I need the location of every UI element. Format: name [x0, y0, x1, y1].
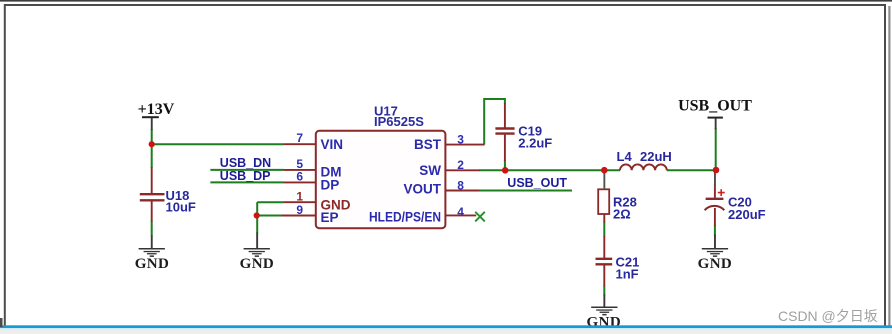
svg-text:3: 3	[457, 133, 464, 147]
svg-text:10uF: 10uF	[166, 200, 196, 215]
svg-text:6: 6	[296, 169, 303, 183]
svg-text:USB_OUT: USB_OUT	[507, 176, 567, 190]
svg-text:HLED/PS/EN: HLED/PS/EN	[369, 210, 441, 225]
svg-text:GND: GND	[240, 256, 275, 272]
svg-text:1: 1	[296, 189, 303, 203]
svg-text:IP6525S: IP6525S	[374, 114, 424, 129]
svg-text:+13V: +13V	[138, 101, 175, 118]
svg-text:EP: EP	[321, 210, 339, 225]
svg-text:USB_OUT: USB_OUT	[678, 97, 752, 114]
svg-text:2Ω: 2Ω	[613, 207, 631, 222]
svg-text:2.2uF: 2.2uF	[518, 136, 552, 151]
svg-text:9: 9	[296, 203, 303, 217]
svg-text:GND: GND	[135, 256, 170, 272]
svg-text:GND: GND	[698, 256, 733, 272]
svg-text:L4: L4	[617, 149, 633, 164]
svg-text:4: 4	[457, 205, 464, 219]
svg-text:220uF: 220uF	[728, 207, 766, 222]
svg-text:VIN: VIN	[321, 137, 344, 152]
svg-text:DP: DP	[321, 177, 340, 192]
svg-text:1nF: 1nF	[616, 267, 639, 282]
svg-text:VOUT: VOUT	[403, 182, 441, 197]
svg-text:USB_DP: USB_DP	[220, 169, 271, 183]
svg-text:2: 2	[457, 158, 464, 172]
svg-text:7: 7	[296, 131, 303, 145]
svg-text:CSDN @夕日坂: CSDN @夕日坂	[778, 308, 878, 324]
svg-text:BST: BST	[414, 137, 442, 152]
svg-text:22uH: 22uH	[640, 149, 672, 164]
svg-text:8: 8	[457, 178, 464, 192]
svg-text:SW: SW	[419, 163, 441, 178]
